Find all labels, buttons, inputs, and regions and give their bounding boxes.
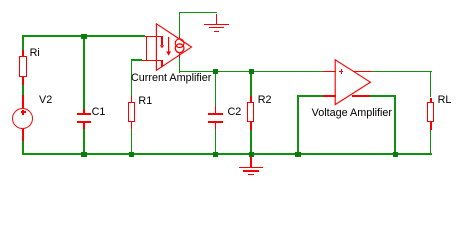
red stub to current source circle top	[179, 36, 181, 39]
label Current Amplifier	[131, 73, 211, 84]
label V2	[39, 95, 52, 106]
voltage source V2 top lead	[22, 95, 24, 107]
label R1	[138, 96, 152, 107]
red stub into voltage amplifier input-	[323, 95, 336, 97]
resistor RL bottom lead	[430, 122, 432, 130]
ground bottom bar 3	[248, 174, 254, 175]
wire red stub into current amplifier input+	[145, 36, 163, 38]
wire current amp lower input horizontal	[131, 59, 143, 61]
node bus input- branch	[295, 152, 300, 157]
label R2	[258, 95, 272, 106]
current direction arrow line	[168, 37, 170, 52]
current direction arrow head	[166, 51, 171, 55]
sense arrow head	[160, 45, 164, 48]
ground bottom bar 2	[243, 170, 259, 171]
resistor R1 top lead	[131, 96, 133, 102]
wire top horizontal (node to Ri branch top)	[22, 35, 145, 37]
wire R2 branch vertical	[250, 72, 252, 97]
ground top stem	[216, 14, 217, 25]
op-amp U1 current amplifier sense stub below	[161, 61, 162, 67]
wire C1 branch vertical	[83, 36, 85, 108]
label Ri	[30, 48, 40, 59]
op-amp U1 triangle	[156, 24, 191, 71]
ground top bar 3	[214, 31, 220, 32]
ground bottom bar 1	[239, 167, 263, 168]
resistor Ri bottom lead	[22, 77, 24, 85]
ground top bar 2	[209, 27, 225, 28]
resistor R1	[128, 102, 135, 122]
wire output- branch vertical to bus	[394, 95, 396, 155]
wire C1 to bus	[83, 129, 85, 156]
resistor R2 top lead	[250, 96, 252, 102]
red stub from current source circle bottom	[179, 53, 181, 59]
red stub into voltage amplifier input+	[323, 71, 336, 73]
wire output- horizontal	[370, 95, 396, 97]
wire R1 to bus	[131, 129, 133, 155]
resistor R2	[247, 102, 254, 122]
op-amp U1 current amplifier input loop bottom	[146, 60, 163, 61]
red stub voltage amplifier output+	[353, 71, 371, 73]
op-amp U2 voltage amplifier triangle	[335, 60, 370, 105]
op-amp U1 current amplifier sense wire	[161, 36, 162, 46]
V2 plus sign horizontal	[21, 111, 26, 112]
resistor R1 bottom lead	[131, 122, 133, 129]
wire R2 to bus	[250, 130, 252, 156]
resistor RL top lead	[430, 98, 432, 102]
wire V2 to ground bus	[22, 141, 24, 155]
wire output+ horizontal to RL	[372, 71, 432, 73]
wire Ri to V2	[22, 85, 24, 96]
capacitor C2 bottom plate	[208, 121, 223, 123]
label C1	[92, 107, 106, 118]
voltage source V2 bottom lead	[22, 129, 24, 141]
wire current amp output down to mid rail	[179, 58, 181, 72]
voltage amplifier plus marker vertical	[341, 69, 342, 74]
node mid R2	[249, 69, 254, 74]
wire red stub current amp input-	[142, 60, 147, 62]
node bus C1	[81, 152, 86, 157]
red stub voltage amplifier output-	[352, 95, 370, 97]
resistor Ri top lead	[22, 50, 24, 56]
capacitor C2 bottom lead	[215, 123, 217, 130]
label RL	[438, 95, 452, 106]
node bus output- branch	[393, 152, 398, 157]
wire top horizontal to ground	[179, 12, 218, 14]
op-amp U1 current amplifier input loop left	[146, 36, 147, 61]
wire C2 to bus	[215, 129, 217, 155]
label C2	[228, 107, 242, 118]
node bus R1	[129, 152, 134, 157]
capacitor C1 top lead	[83, 109, 85, 114]
wire C2 branch vertical	[215, 72, 217, 106]
node mid C2	[213, 69, 218, 74]
wire R1 branch vertical	[131, 59, 133, 96]
capacitor C1 bottom lead	[83, 123, 85, 129]
node bus C2	[213, 152, 218, 157]
resistor RL	[427, 102, 434, 122]
resistor R2 bottom lead	[250, 122, 252, 130]
node bus ground	[249, 152, 254, 157]
capacitor C2 top plate	[208, 113, 223, 115]
ground bottom stem	[250, 155, 251, 167]
resistor Ri	[19, 56, 26, 77]
wire input- branch vertical to bus	[297, 95, 299, 155]
wire RL branch vertical top	[430, 71, 432, 98]
label Voltage Amplifier	[312, 108, 392, 119]
wire RL to bus	[430, 130, 432, 156]
wire voltage amp input- horizontal	[297, 95, 324, 97]
capacitor C1 top plate	[77, 113, 91, 115]
ground top bar 1	[204, 24, 229, 25]
current amplifier triangle and internals	[0, 0, 456, 186]
wire bottom bus	[22, 153, 432, 155]
V2 plus sign vertical	[22, 110, 23, 115]
wire top-left vertical (input branch)	[22, 35, 24, 50]
wire mid horizontal rail	[179, 71, 324, 73]
voltage amplifier plus marker horizontal	[339, 71, 344, 72]
current source circle upper	[175, 39, 184, 48]
current source circle lower	[175, 44, 184, 53]
wire current source top to ground rail	[179, 12, 181, 37]
capacitor C1 bottom plate	[77, 121, 91, 123]
voltage source V2	[12, 108, 33, 129]
capacitor C2 top lead	[215, 106, 217, 114]
node top (C1 / input)	[81, 34, 86, 39]
